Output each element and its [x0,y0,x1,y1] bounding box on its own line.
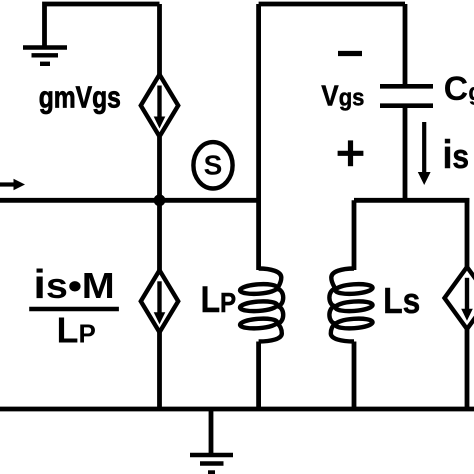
label minus [338,51,362,56]
wire: main horizontal [0,198,259,203]
label is*M over LP (fraction) [29,262,119,351]
inductor LS [329,269,372,342]
wire: right source to bottom rail [465,329,470,409]
inductor LP [240,269,283,342]
svg-text:Ls: Ls [383,281,420,322]
wire: node to lower source [157,200,162,272]
wire: LP to bottom rail [256,342,261,410]
wire: top wire into gmVgs diamond [157,4,162,78]
wire: left vertical of primary loop [256,4,261,270]
svg-text:S: S [204,149,223,180]
wire: LS to bottom rail [352,342,357,410]
dependent current source is*M/LP [141,270,178,332]
wire: right vertical down to capacitor [403,4,408,86]
wire: gmVgs to main node [157,137,162,200]
svg-text:Vgs: Vgs [321,79,364,112]
junction dot [154,194,166,206]
svg-text:gmVgs: gmVgs [39,80,121,114]
current arrow is [418,122,431,185]
wire: secondary horizontal rail [354,198,469,203]
label plus [338,140,364,166]
ground (bottom) [190,409,233,473]
svg-text:is: is [443,132,469,177]
wire: rail down to right source [465,198,470,269]
node S [193,142,232,188]
wire: capacitor bottom to secondary rail [403,106,408,201]
dependent current source gmVgs [141,75,178,137]
dependent current source (right, clipped) [445,267,474,329]
wire: bottom rail [0,407,474,412]
wire: top rail of loop [259,2,405,7]
input arrow [0,179,25,191]
ground (top-left) [23,48,67,64]
wire top-left: ground stub up and over to gmVgs source [45,4,160,48]
wire: rail down to LS [352,200,357,270]
svg-text:LP: LP [201,280,237,321]
wire: lower source to bottom rail [157,331,162,409]
svg-text:is•M: is•M [33,262,114,308]
capacitor Cgs [380,86,433,105]
